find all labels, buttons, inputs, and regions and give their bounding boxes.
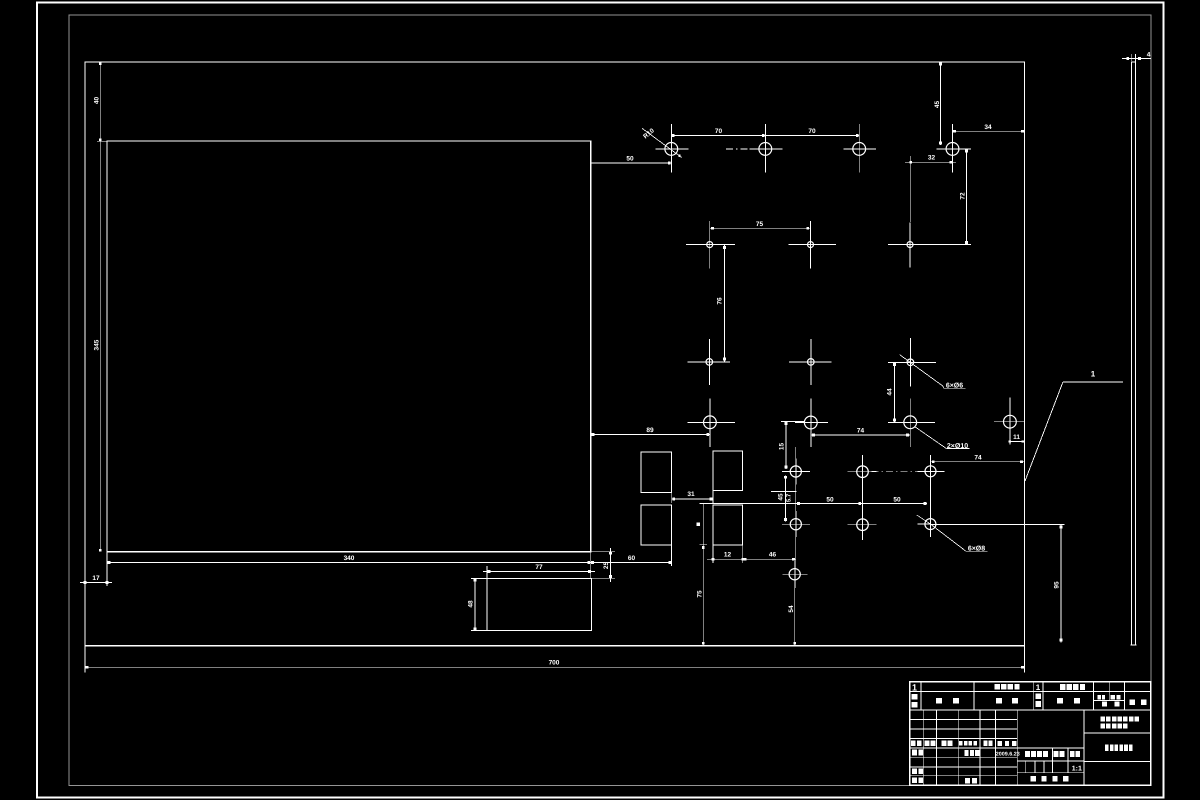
svg-text:50: 50 [626,156,634,163]
hole row4-3 [904,416,917,429]
dimension 11 [1010,441,1025,443]
bottom sub-view rectangle (77x48) [487,578,591,630]
mid bili [1070,751,1075,757]
mid zhongliang [1054,751,1059,757]
svg-text:700: 700 [549,660,560,667]
slot rectangle B [713,451,743,491]
header zongji [1111,695,1115,700]
hole row5-2 [857,466,869,478]
svg-text:50: 50 [893,497,901,504]
dimension 95 [1060,524,1062,642]
dimension 25 [610,548,612,582]
plate outline [85,62,1024,646]
hole row1-2 [759,143,772,156]
header mingcheng [996,698,1002,704]
hole row1-1 [665,143,678,156]
header shuliang [1035,694,1041,700]
header daihao [936,698,942,704]
row biaoji [911,740,916,746]
dimension 31 [672,498,713,500]
chain dim line [700,503,927,505]
svg-text:44: 44 [887,388,894,396]
hole row2-3 [907,242,913,248]
column line x=930.4 [929,455,931,537]
svg-text:32: 32 [928,155,936,162]
svg-text:76: 76 [717,297,724,305]
svg-text:11: 11 [1013,434,1020,441]
parts list part name [995,684,1000,690]
svg-text:50: 50 [826,497,834,504]
dimension 74a [811,434,910,436]
header xuhao [912,694,918,700]
side view top tick [1132,61,1136,63]
dimension 4 [1122,57,1151,59]
dimension 46 [743,558,796,560]
svg-text:75: 75 [697,590,704,598]
mid gongzhang [1031,776,1036,781]
dimension 345 [99,141,101,552]
hole row5-3 [925,466,936,477]
hole row6-3 [925,519,936,530]
svg-text:60: 60 [628,555,636,562]
row nianyueri [998,741,1002,746]
row qianzi [984,741,988,746]
dimension 75a [710,227,811,229]
svg-text:48: 48 [468,600,475,608]
header zhongliang [1102,701,1107,706]
dimension 44 [893,362,895,422]
side view extension lines [1131,54,1133,62]
hole row3-3 [907,359,914,366]
svg-text:6×Ø8: 6×Ø8 [968,544,985,552]
hole row7-1 [789,569,800,580]
column line x=862.5 [862,455,864,540]
svg-text:15: 15 [779,443,786,451]
svg-text:95: 95 [1054,581,1061,589]
title block grid [1016,710,1018,785]
svg-text:46: 46 [769,552,777,559]
leader 6xD6 [900,355,943,386]
side view left line [1131,62,1133,645]
svg-text:70: 70 [715,128,723,135]
svg-text:2009.6.23: 2009.6.23 [996,751,1020,757]
svg-text:74: 74 [857,428,865,435]
svg-text:75: 75 [756,221,764,228]
university name line1 [1100,717,1105,722]
dimension 45 [940,62,942,145]
dimension 40 [99,62,101,141]
slot rectangle A [641,452,672,493]
svg-text:5.7: 5.7 [786,493,793,502]
row fenqu [941,741,946,746]
svg-text:72: 72 [960,192,967,200]
header beizhu [1129,699,1135,705]
hole row6-1 [790,519,801,530]
svg-text:31: 31 [687,491,695,498]
drawing title [1105,745,1109,752]
row genggai [959,741,963,746]
university name line2 [1100,723,1105,728]
dimension 89 [591,433,710,435]
designer name [964,750,968,756]
dimension 12 [707,558,748,560]
center line row5 [872,470,925,472]
svg-text:2×Ø10: 2×Ø10 [947,442,968,450]
hole row6-2 [857,519,869,531]
leader 2xD10 [914,426,944,447]
svg-text:340: 340 [344,555,355,562]
side view bottom tick [1131,644,1137,646]
dimension 70a [671,135,765,137]
svg-text:1: 1 [1036,683,1041,692]
row pizhun [965,778,970,783]
svg-text:74: 74 [974,455,982,462]
header cailiao [1057,698,1063,704]
dimension 76 [724,245,726,362]
dimension 54 [794,580,796,646]
svg-text:17: 17 [92,575,100,582]
svg-text:77: 77 [535,564,543,571]
svg-text:45: 45 [934,101,941,109]
balloon 1 [1063,381,1123,383]
hole row5-1 [790,466,801,477]
svg-text:1:1: 1:1 [1072,765,1082,772]
leader R10 [642,128,682,157]
svg-text:34: 34 [984,124,992,131]
hole row2-1 [707,242,713,248]
svg-text:4: 4 [1147,52,1151,59]
side view right line [1134,62,1136,645]
svg-text:25: 25 [603,562,610,570]
parts list material [1060,684,1065,690]
hole row3-1 [706,359,713,366]
row chushu [925,740,930,746]
row gongyi [912,777,917,783]
dimension 70b [765,135,859,137]
dimension 72 [966,149,968,245]
hole row4-1 [704,416,717,429]
svg-text:12: 12 [724,552,732,559]
title block frame and parts-list header [910,682,1151,785]
dimension 50 [591,162,672,164]
center line row1 [726,148,749,150]
slot rectangle D [713,505,743,545]
svg-text:89: 89 [646,427,654,434]
dimension 77 [483,571,595,573]
dimension 34 [953,130,1025,132]
dimension 60 [591,562,672,564]
hole row4-2 [804,416,817,429]
hole row4-4 [1004,415,1017,428]
hole row1-4 [946,143,959,156]
row sheji [912,750,917,756]
hole row1-3 [853,143,866,156]
leader 6xD8 [917,515,931,524]
hole row3-2 [808,359,815,366]
svg-text:345: 345 [94,339,101,350]
svg-text:54: 54 [788,605,795,613]
row shenhe [912,768,917,774]
dimension 74b [930,461,1024,463]
mid jieduanbiaoji [1025,751,1030,757]
pocket rectangle (340x345) [107,141,591,552]
svg-text:45: 45 [778,493,785,501]
dimension 17 [80,582,112,584]
hole row2-2 [808,242,814,248]
column line x=795.8 [795,447,797,588]
svg-text:1: 1 [1091,370,1096,379]
dimension 48 [474,578,476,630]
svg-text:1: 1 [912,683,917,693]
dimension 45b [784,475,786,521]
header danjian [1098,695,1101,700]
dimension 15 [785,422,787,469]
dimension 75b [702,504,704,646]
dimension 340 [107,562,591,564]
svg-text:40: 40 [94,97,101,105]
svg-text:70: 70 [808,128,816,135]
dimension 32 [905,161,956,163]
slot rectangle C [641,505,672,545]
svg-text:6×Ø6: 6×Ø6 [946,382,963,390]
dimension 700 [85,666,1024,668]
